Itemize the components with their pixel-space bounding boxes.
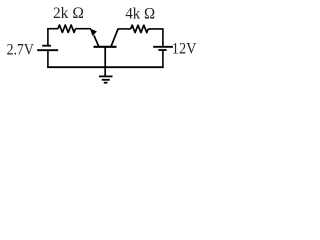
svg-text:12V: 12V — [172, 41, 197, 58]
bottom rail wire — [47, 66, 164, 68]
ground line 1 — [99, 75, 113, 77]
battery V2 12V long plate — [153, 46, 173, 48]
wire from collector to resistor R2 — [118, 28, 131, 30]
transistor Q1 base bar — [94, 46, 117, 48]
wire battery V2 bottom to bottom rail — [162, 50, 164, 67]
battery V1 2.7V long plate — [37, 49, 58, 51]
resistor R2 4k zigzag — [131, 25, 149, 32]
ground line 2 — [102, 79, 110, 81]
wire from resistor R2 to battery V2 top — [148, 29, 163, 47]
battery V1 2.7V short plate — [42, 45, 51, 47]
transistor Q1 base lead down through bottom rail — [104, 47, 106, 76]
svg-text:2k Ω: 2k Ω — [53, 5, 84, 22]
wire bottom rail up to battery V1 bottom — [47, 50, 49, 67]
wire battery V1 top to top-left wire — [47, 29, 49, 46]
transistor Q1 emitter with arrow — [94, 35, 99, 46]
resistor R1 2k zigzag — [58, 25, 76, 32]
ground line 3 — [104, 82, 108, 84]
svg-text:2.7V: 2.7V — [7, 41, 35, 58]
wire from resistor R1 to transistor emitter node — [76, 28, 92, 30]
wire top-left from battery V1 to resistor R1 — [47, 28, 58, 30]
svg-text:4k Ω: 4k Ω — [125, 6, 155, 23]
transistor Q1 collector — [111, 29, 118, 47]
battery V2 12V short plate — [158, 49, 166, 51]
